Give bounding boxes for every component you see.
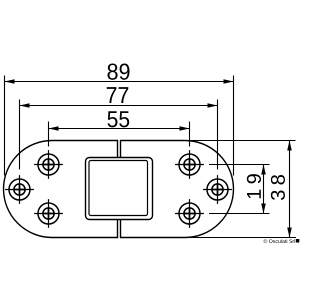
svg-text:© Osculati Srl: © Osculati Srl <box>264 239 296 245</box>
